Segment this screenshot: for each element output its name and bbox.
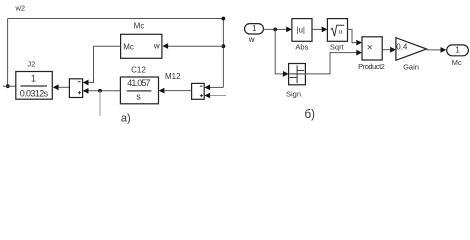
arrow into M12 top [204,85,210,91]
svg-text:Abs: Abs [295,43,308,52]
arrow into C12 [159,88,165,94]
svg-text:Mc: Mc [134,21,145,30]
wire Sqrt to Product2 top input [348,29,357,42]
svg-text:|u|: |u| [296,25,305,34]
wire junction down to Sign [275,29,283,74]
wire w2 feedback right vertical [222,19,224,88]
arrow into Mc [162,43,168,49]
block Mc [121,34,162,58]
svg-text:w: w [248,35,255,44]
svg-text:а): а) [121,113,131,125]
wire M12 output to C12 [164,90,191,92]
arrow into Product2 top [356,40,362,46]
wire stub going down [99,91,101,116]
wire inport to Abs [264,28,287,30]
svg-text:×: × [367,43,373,54]
arrow into Sqrt [322,27,328,33]
arrow into Product2 bottom [356,50,362,56]
wire sum1 output to J2 [58,86,69,88]
Sign icon plus-one segment [297,69,304,71]
wire w2 line to M12 top [210,86,224,88]
svg-text:1: 1 [252,24,257,33]
wire stub into M12 bottom [210,95,226,97]
block Sqrt [327,19,347,42]
svg-text:M12: M12 [165,72,181,81]
junction dot at Mc branch [222,44,226,48]
junction dot at J2 output [6,84,10,88]
svg-text:Mc: Mc [123,42,134,51]
sum1 minus sign [78,81,81,83]
block Product2 [362,37,382,60]
junction dot on C12 output [98,89,102,93]
svg-text:Sign: Sign [286,90,301,99]
sum block M12 [192,83,205,99]
wire w2 feedback top horizontal [8,18,224,20]
block J2 transfer function [16,72,53,100]
svg-text:u: u [339,28,343,35]
M12 plus sign [200,95,203,97]
Sign icon x axis [289,73,304,75]
svg-text:0.4: 0.4 [396,43,408,52]
wire J2 output stub [3,85,16,87]
Sign icon minus-one segment [290,76,298,78]
block Sign [289,64,306,85]
block Abs [292,19,312,42]
wire C12 output to sum1 bottom [88,90,120,92]
wire Abs to Sqrt [312,28,322,30]
outport oval Mc [447,45,469,56]
arrow into outport [441,47,447,53]
svg-text:s: s [136,91,141,101]
arrow into sum1 top [83,80,89,86]
arrow into Abs [286,27,292,33]
sum1 plus sign [78,92,81,94]
svg-text:1: 1 [31,73,36,83]
svg-text:б): б) [304,109,315,121]
wire Product2 to Gain [382,49,390,51]
svg-text:Product2: Product2 [358,62,385,71]
arrow into M12 bottom [204,93,210,99]
sum block left [69,79,82,98]
arrow into Sign [283,71,289,77]
arrow into J2 [53,84,59,90]
inport oval w [245,24,264,34]
svg-text:Sqrt: Sqrt [330,43,345,52]
svg-text:C12: C12 [131,65,146,74]
svg-text:Gain: Gain [403,63,419,72]
svg-text:J2: J2 [27,60,35,69]
wire Sign to Product2 bottom input [305,53,356,74]
svg-text:41.057: 41.057 [127,78,150,88]
svg-text:w2: w2 [15,4,26,13]
gain triangle [396,38,427,61]
M12 minus sign [200,85,203,87]
svg-text:w: w [153,42,160,51]
wire Gain to outport [427,49,441,51]
wire w2 feedback left vertical [7,19,9,87]
svg-text:1: 1 [455,45,460,54]
wire w2 line to Mc [168,45,224,47]
C12 fraction bar [127,90,152,92]
junction dot top right [222,17,226,21]
block C12 transfer function [120,77,158,104]
svg-text:Mc: Mc [452,58,462,67]
wire Mc output to sum1 top [88,46,121,82]
svg-text:0.0312s: 0.0312s [20,89,49,99]
Sign icon y axis [296,65,298,83]
Sqrt icon radical [331,25,344,36]
junction dot after inport [273,28,277,32]
J2 fraction bar [20,85,47,87]
arrow into Gain [390,47,396,53]
arrow into sum1 bottom [83,88,89,94]
